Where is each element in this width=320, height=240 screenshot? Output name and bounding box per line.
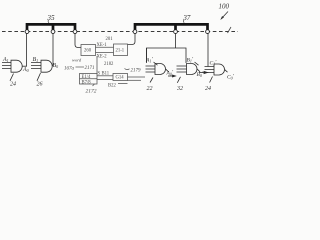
svg-text:B22: B22 [108, 84, 116, 89]
svg-text:2182: 2182 [104, 62, 114, 67]
svg-text:22: 22 [147, 86, 153, 92]
svg-text:26: 26 [37, 82, 43, 88]
svg-text:32: 32 [176, 86, 183, 92]
svg-text:24: 24 [10, 81, 16, 88]
svg-text:C1': C1' [210, 60, 218, 67]
svg-text:167a: 167a [64, 67, 75, 72]
svg-text:2171: 2171 [85, 66, 95, 71]
svg-text:C0': C0' [227, 74, 235, 81]
svg-text:XE-2: XE-2 [97, 55, 108, 60]
svg-text:21-1: 21-1 [116, 49, 125, 54]
svg-text:B1: B1 [33, 57, 39, 63]
svg-text:B0': B0' [197, 71, 204, 78]
svg-text:201: 201 [106, 37, 114, 42]
svg-text:word: word [72, 57, 82, 62]
svg-text:S: S [98, 72, 101, 77]
svg-text:B7/8: B7/8 [82, 80, 92, 85]
svg-text:G14: G14 [116, 76, 125, 81]
svg-text:B1': B1' [187, 57, 194, 64]
svg-text:B11: B11 [102, 72, 110, 77]
svg-text:A1: A1 [2, 57, 9, 63]
svg-text:2172: 2172 [86, 89, 97, 95]
svg-text:A0: A0 [22, 67, 29, 73]
svg-text:A1': A1' [145, 57, 153, 64]
svg-text:XE-1: XE-1 [97, 43, 108, 48]
svg-text:35: 35 [46, 14, 55, 22]
svg-text:E1/4: E1/4 [82, 75, 92, 80]
svg-text:2179: 2179 [131, 69, 142, 74]
svg-text:100: 100 [219, 3, 230, 11]
svg-text:B0: B0 [53, 63, 59, 69]
svg-text:24: 24 [205, 85, 211, 92]
svg-text:260: 260 [84, 49, 92, 54]
